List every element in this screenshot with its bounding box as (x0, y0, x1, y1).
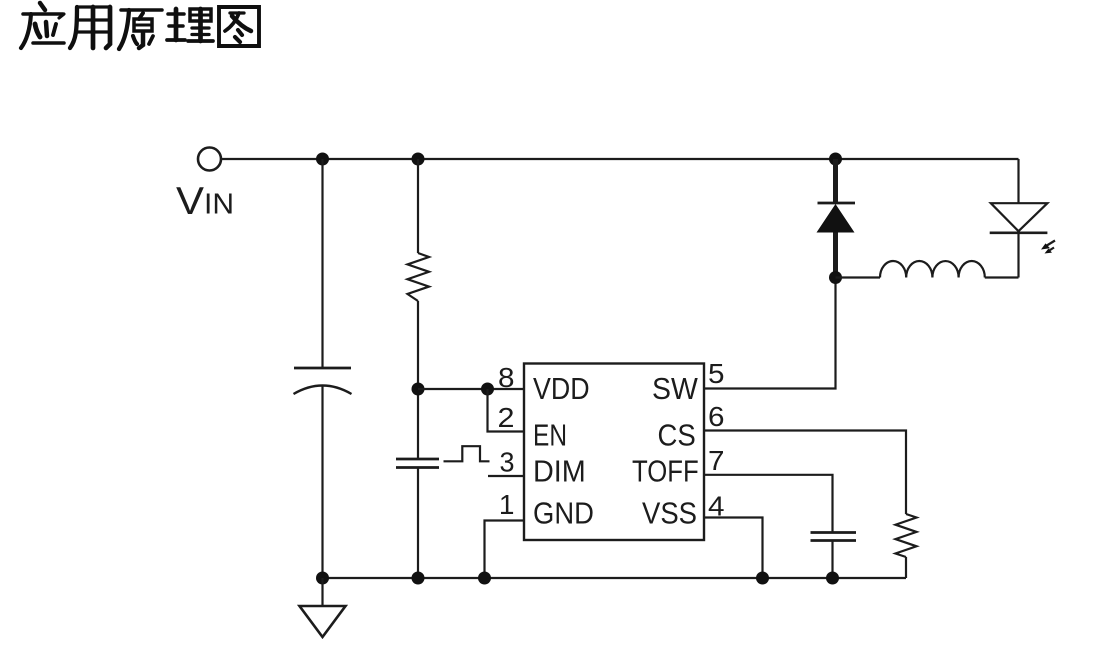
svg-text:1: 1 (499, 489, 515, 520)
char 理 (167, 9, 213, 41)
wire bottom rail (323, 577, 907, 579)
node rail C1 (316, 572, 329, 585)
char 用 (70, 7, 110, 48)
svg-text:VDD: VDD (533, 371, 590, 406)
wire VDD pin8 (418, 388, 524, 390)
wire top rail (221, 158, 1019, 160)
resistor R1 (408, 253, 430, 301)
node rail C3 (826, 572, 839, 585)
wire LED bottom lead (1017, 233, 1019, 278)
svg-text:5: 5 (708, 358, 725, 389)
node junction top diode (829, 153, 842, 166)
resistor R2 (896, 514, 917, 557)
pulse waveform DIM (444, 446, 490, 461)
LED D2 cathode bar (990, 232, 1048, 235)
diode D1 top lead (833, 159, 838, 204)
capacitor C1 (294, 367, 351, 370)
node junction top-left (316, 153, 329, 166)
wire SW pin5 (704, 278, 836, 389)
wire R2 to rail (905, 557, 907, 578)
wire R1 to C2 (417, 301, 419, 459)
wire TOFF pin7 (704, 475, 833, 533)
svg-text:GND: GND (533, 496, 594, 531)
node junction top R1 (412, 153, 425, 166)
LED D2 triangle (991, 203, 1048, 231)
title 应用原理图 (21, 3, 259, 49)
IC pin labels (533, 371, 699, 531)
svg-text:6: 6 (708, 401, 725, 432)
svg-text:7: 7 (708, 445, 725, 476)
wire inductor to LED (985, 276, 1019, 278)
capacitor C3 (811, 531, 857, 534)
wire LED top lead (1017, 159, 1019, 203)
node rail C2 (412, 572, 425, 585)
svg-text:DIM: DIM (533, 454, 586, 489)
terminal VIN circle (198, 148, 221, 171)
node VDD branch junction (412, 383, 425, 396)
wire C1 branch lower (321, 386, 323, 579)
ground symbol (321, 578, 323, 606)
node EN junction (481, 383, 494, 396)
svg-text:8: 8 (498, 362, 515, 393)
svg-text:TOFF: TOFF (632, 454, 699, 489)
capacitor C2 (396, 458, 439, 461)
wire R1 top (417, 159, 419, 253)
IC pin numbers (498, 358, 725, 522)
wire VSS pin4 (704, 518, 763, 579)
svg-text:VSS: VSS (642, 496, 697, 531)
char 图 (219, 7, 259, 46)
diode D1 triangle (817, 204, 855, 233)
diode D1 cathode bar (818, 202, 856, 205)
diode D1 bottom lead (833, 233, 838, 278)
wire GND pin1 (485, 521, 525, 579)
svg-text:IN: IN (204, 189, 234, 221)
wire C2 to rail (417, 468, 419, 579)
wire C1 branch upper (321, 159, 323, 368)
char 原 (119, 10, 162, 49)
wire CS pin6 (704, 431, 906, 515)
LED emission arrows (1041, 241, 1055, 254)
wire EN pin2 (488, 389, 525, 432)
node rail GND pin (478, 572, 491, 585)
wire DIM pin3 stub (488, 475, 524, 477)
svg-text:V: V (176, 180, 204, 223)
label VIN (176, 180, 234, 223)
node rail VSS (756, 572, 769, 585)
svg-text:CS: CS (658, 418, 696, 453)
svg-text:EN: EN (533, 418, 567, 453)
svg-text:2: 2 (498, 402, 515, 433)
node SW-diode junction (829, 271, 842, 284)
char 应 (21, 3, 64, 48)
inductor L1 (880, 261, 985, 278)
svg-text:3: 3 (500, 447, 515, 478)
IC U1 body (524, 364, 704, 541)
svg-text:SW: SW (652, 371, 698, 406)
wire to inductor (836, 276, 881, 278)
wire C3 to rail (831, 541, 833, 579)
